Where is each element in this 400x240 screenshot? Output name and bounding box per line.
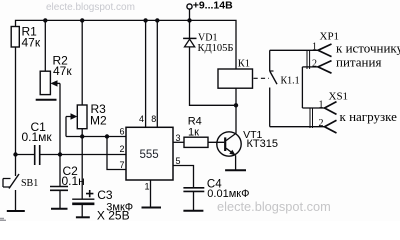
wire VD1 top [189,20,191,38]
ground 555 pin1 [142,207,162,209]
svg-text:3: 3 [176,133,181,143]
svg-text:electe.blogspot.com: electe.blogspot.com [46,2,135,13]
wire line A pins6 [66,136,126,138]
svg-text:SB1: SB1 [21,178,38,189]
svg-text:к нагрузке: к нагрузке [340,109,398,124]
resistor R1 [11,27,19,48]
wire pin4 [145,20,147,127]
svg-text:1: 1 [312,42,317,53]
resistor R3 [77,105,87,129]
wire K1 bottom to collector [235,88,237,134]
ground R2 [36,99,57,101]
ground C4 [183,210,203,212]
svg-text:Х 25В: Х 25В [97,209,130,222]
diode VD1 [183,38,196,47]
svg-text:КД105Б: КД105Б [198,43,234,54]
wire VD1 bottom [190,47,237,106]
wire R3 top [81,20,83,105]
transistor VT1 [217,132,241,156]
wire XP1 pin2 [302,66,318,68]
ground VT1 [225,169,246,171]
wire contact bottom [269,88,271,127]
wire R3 wiper [66,117,72,137]
resistor R2 wiper arrow [50,80,60,86]
wire R4 to base [208,141,224,143]
svg-text:1: 1 [145,182,150,192]
wire C4 bottom [193,191,195,210]
wire pin3 to R4 [173,141,184,143]
wire trigger right to pin2 [40,154,126,156]
connector XP1 body lines [307,50,310,69]
wire power stem [189,9,191,20]
svg-text:0.01мкФ: 0.01мкФ [207,188,249,200]
svg-text:2: 2 [120,144,125,154]
svg-text:К1.1: К1.1 [281,76,300,87]
connector XP1 pin1 fork [318,44,332,57]
svg-text:5: 5 [176,156,181,166]
wire R1 bottom [15,47,17,155]
resistor R3 wiper arrow [71,113,78,119]
ground C2 [51,208,68,210]
svg-text:C3: C3 [97,188,113,202]
wire pin5 to C4 [173,166,194,188]
capacitor C3 polarized [72,190,94,204]
wire pin7 [107,137,126,170]
wire trigger left [16,154,35,156]
svg-text:М2: М2 [90,114,107,128]
relay contact tick [270,70,274,72]
timer U1 555 box [126,127,173,180]
connector XS1 pin2 fork [325,120,337,133]
svg-text:2: 2 [312,59,317,70]
wire pin8 [156,20,158,127]
wire contact top [269,50,271,71]
wire XP2 to XS1 vertical [301,67,303,108]
svg-text:VD1: VD1 [198,33,217,44]
ground SB1 [7,210,25,212]
wire top rail [16,20,237,69]
connector XP1 pin2 fork [318,61,332,74]
svg-text:к источнику: к источнику [336,41,400,56]
corner artifact bottom-left [0,219,6,221]
svg-text:К1: К1 [238,59,250,70]
wire SB1 bottom [15,190,17,211]
ground C3 [76,216,90,218]
connector XS1 pin1 fork [325,102,337,115]
wire pin1 stem [150,180,152,208]
wire R3 bottom to C3 [81,129,83,200]
svg-text:питания: питания [336,55,381,70]
wire XS1 pin2 [270,126,325,128]
relay contact blade [270,71,277,84]
svg-text:555: 555 [140,149,159,161]
svg-text:1: 1 [319,100,324,111]
connector XS1 body lines [310,108,313,128]
svg-text:2: 2 [319,118,324,129]
capacitor C4 [183,188,204,192]
wire C3 bottom [81,204,83,218]
resistor R2 [40,71,50,94]
svg-text:XS1: XS1 [329,91,349,103]
wire XS1 pin1 [302,107,324,109]
resistor R4 [184,137,208,147]
svg-text:47к: 47к [22,36,41,50]
relay K1 coil [218,69,253,88]
svg-text:1к: 1к [188,127,199,139]
wire C2 stem [59,155,61,209]
relay contact K1.1 dashed link [254,77,270,79]
push button SB1 [3,174,19,189]
power terminal circle [187,4,192,9]
wire XP1 pin1 [270,49,318,51]
svg-text:electe.blogspot.com: electe.blogspot.com [217,199,331,214]
capacitor C2 [50,187,68,191]
svg-text:47к: 47к [53,64,72,78]
svg-text:7: 7 [120,160,125,170]
svg-text:8: 8 [151,114,156,124]
wire SB1 top [15,155,17,177]
svg-text:0.1мк: 0.1мк [22,130,53,144]
svg-text:6: 6 [120,127,125,137]
capacitor C1 [35,145,40,165]
wire emitter down [235,155,237,170]
svg-text:0.1н: 0.1н [62,174,85,188]
svg-text:+9...14В: +9...14В [193,0,233,12]
svg-text:КТ315: КТ315 [247,138,278,150]
wire R2 wiper down [59,83,61,154]
wire R2 top [44,20,46,71]
svg-text:4: 4 [139,114,144,124]
